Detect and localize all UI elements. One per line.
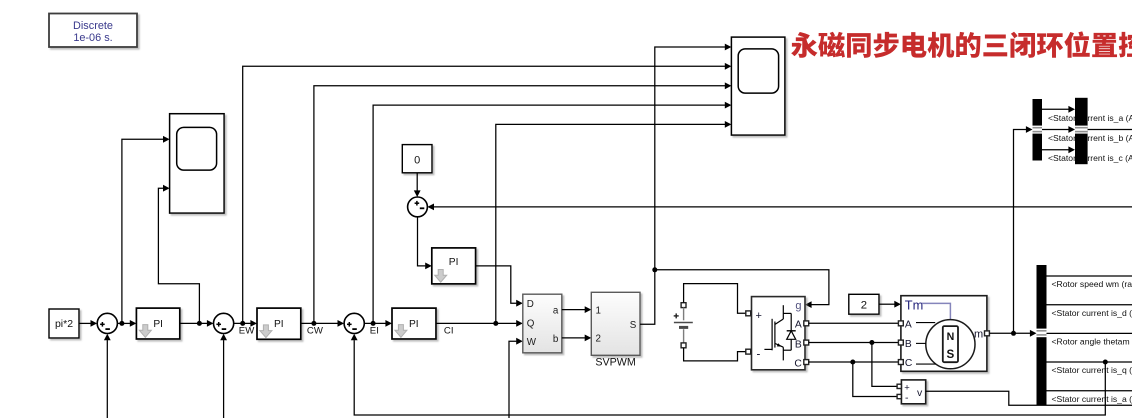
svg-text:S: S: [947, 348, 955, 361]
svg-text:D: D: [527, 299, 534, 310]
inverter port squares: [746, 311, 809, 365]
wire m branch riser to current bus selector: [1014, 126, 1033, 333]
svg-text:W: W: [527, 337, 537, 348]
svg-text:1: 1: [596, 306, 601, 317]
junction dot EW: [240, 321, 245, 326]
sum junction Sum4 (d current error): [408, 197, 428, 217]
wire is_q feedback to Sum3: [351, 334, 1106, 415]
svg-text:CW: CW: [307, 326, 324, 337]
svg-text:pi*2: pi*2: [55, 318, 73, 330]
junction dot CW: [311, 321, 316, 326]
wire PI1 to Sum2: [180, 320, 214, 327]
junction dot EI: [371, 321, 376, 326]
svg-text:-: -: [905, 392, 909, 404]
wire DQW b to SVPWM 2: [562, 335, 592, 342]
constant block 2 (load torque): [849, 294, 879, 314]
junction dot on phase B: [869, 340, 874, 345]
wire is_d feedback into Sum4: [427, 204, 1132, 211]
wire EW riser to Scope2 input 2: [243, 63, 732, 324]
svg-text:N: N: [947, 331, 955, 343]
wire speed feedback riser to Sum2: [220, 334, 227, 418]
svg-text:<Stator current is_d (A)>: <Stator current is_d (A)>: [1052, 308, 1132, 318]
svg-text:2: 2: [596, 334, 601, 345]
PI controller PI4 (d current loop): [432, 248, 476, 284]
DC voltage source battery terminal bottom: [681, 343, 686, 348]
bus selector (currents): [1033, 99, 1043, 161]
DC voltage source battery terminal top: [681, 303, 686, 308]
motor port squares: [898, 321, 989, 365]
wire bus output is_a: [1047, 390, 1132, 392]
bus selector (motor measurement bus): [1037, 265, 1047, 405]
motor port label B and stub: [905, 339, 926, 350]
subsystem dq0-to-abc transform DQW: [523, 294, 562, 353]
sum junction Sum3 (q current error): [344, 313, 364, 333]
svg-text:0: 0: [414, 155, 420, 167]
wire Sum1 to PI1: [117, 320, 136, 327]
wire v output: [926, 391, 1132, 405]
battery symbol: [674, 308, 693, 344]
wire bus selector to mux is_c: [1042, 146, 1075, 153]
svg-text:PI: PI: [449, 257, 459, 268]
wire branch to Scope1 input 2: [158, 185, 199, 324]
motor Tm internal line: [922, 303, 951, 319]
wire constant 0 to Sum4: [414, 173, 421, 197]
wire phase B inverter to motor: [809, 342, 899, 344]
PI controller PI3 (q current loop): [392, 308, 436, 339]
wire DQW a to SVPWM 1: [562, 306, 592, 313]
svg-text:C: C: [905, 358, 913, 369]
wire pi*2 to Sum1: [79, 320, 97, 327]
svg-text:EI: EI: [370, 326, 379, 337]
wire battery + to inverter +: [684, 284, 746, 314]
junction dot on S wire: [652, 267, 657, 272]
svg-text:<Stator current is_a (A)>: <Stator current is_a (A)>: [1048, 113, 1132, 123]
wire speed feedback riser to Sum1: [104, 334, 111, 418]
junction dot on is_q wire: [1103, 360, 1108, 365]
scope Scope2: [731, 37, 785, 135]
svg-text:<Rotor speed wm (rad/s)>: <Rotor speed wm (rad/s)>: [1052, 279, 1132, 289]
wire motor m to bus selector: [990, 330, 1037, 337]
scope Scope1: [170, 114, 225, 213]
junction dot CI: [493, 321, 498, 326]
svg-text:B: B: [905, 339, 912, 350]
svg-text:SVPWM: SVPWM: [595, 357, 635, 369]
PI controller PI1 (position loop): [136, 308, 179, 339]
PI controller PI2 (speed loop): [257, 308, 301, 339]
sum junction Sum2 (speed error): [214, 313, 234, 333]
svg-text:b: b: [553, 334, 559, 345]
wire battery - to inverter -: [684, 348, 746, 361]
wire bus selector to mux is_a: [1042, 106, 1075, 113]
wire bus output rotor speed wm: [1047, 275, 1132, 277]
svg-text:1e-06 s.: 1e-06 s.: [73, 32, 112, 44]
wire phase C inverter to motor: [809, 361, 899, 363]
svg-text:a: a: [553, 305, 559, 316]
wire EI riser to Scope2 input 4: [373, 102, 731, 324]
title annotation (red Chinese text): [791, 31, 1132, 57]
wire phase C branch to voltage measurement -: [853, 362, 897, 397]
wire constant 2 to motor Tm: [879, 301, 901, 308]
wire Sum4 to PI4: [418, 217, 432, 269]
wire Sum2 to PI2, signal EW: [234, 320, 257, 327]
motor port label C and stub: [905, 358, 936, 369]
svg-text:2: 2: [861, 300, 867, 312]
wire rotor angle feedback to DQW W input: [509, 338, 523, 418]
mux (currents): [1075, 98, 1088, 164]
constant block pi*2: [49, 309, 79, 338]
wire phase B branch to voltage measurement +: [872, 343, 897, 387]
svg-text:C: C: [794, 358, 802, 369]
wire bus selector to mux is_b: [1042, 126, 1075, 133]
svg-text:+: +: [756, 310, 762, 322]
svg-text:<Stator current is_b (A)>: <Stator current is_b (A)>: [1048, 133, 1132, 143]
constant block 0 (d current reference): [402, 145, 432, 173]
svg-text:<Stator current is_c (A)>: <Stator current is_c (A)>: [1048, 153, 1132, 163]
sum junction Sum1 (position error): [97, 313, 117, 333]
motor port label A and stub: [905, 320, 935, 331]
wire PI2 to Sum3, signal CW: [301, 320, 344, 327]
wire PI4 to DQW D input: [476, 266, 523, 307]
junction dot after PI1: [197, 321, 202, 326]
svg-text:-: -: [757, 349, 761, 361]
wire S branch to inverter g input: [655, 270, 829, 308]
wire CW riser to Scope2 input 3: [314, 82, 732, 323]
motor magnet with N S: [943, 326, 958, 362]
wire PI3 to DQW Q input, signal CI: [436, 320, 523, 327]
motor block PMSM: [901, 296, 987, 372]
svg-text:EW: EW: [239, 326, 255, 337]
junction dot on m wire: [1011, 331, 1016, 336]
svg-text:B: B: [795, 339, 802, 350]
svg-text:Q: Q: [527, 318, 535, 329]
wire bus output rotor angle thetam: [1047, 332, 1132, 334]
svg-text:Tm: Tm: [905, 297, 923, 312]
junction dot after Sum1: [119, 321, 124, 326]
svg-text:PI: PI: [409, 319, 419, 330]
svg-text:g: g: [795, 300, 801, 312]
svg-text:Discrete: Discrete: [73, 20, 113, 32]
Discrete sample time block: [49, 14, 137, 48]
inverter IGBT-diode icon: [764, 305, 795, 360]
wire bus output is_q: [1047, 361, 1132, 363]
svg-text:<Stator current is_q (A)>: <Stator current is_q (A)>: [1052, 365, 1132, 375]
junction dot on phase C: [850, 360, 855, 365]
voltage measurement port squares: [897, 384, 901, 398]
svg-text:v: v: [917, 387, 923, 399]
svg-text:S: S: [630, 320, 637, 331]
wire bus output is_d: [1047, 304, 1132, 306]
wire mux output: [1088, 129, 1132, 131]
voltage measurement block v: [901, 380, 925, 404]
wire phase A inverter to motor: [809, 322, 899, 324]
svg-text:m: m: [974, 328, 983, 340]
wire Sum3 to PI3, signal EI: [364, 320, 392, 327]
svg-text:PI: PI: [153, 319, 163, 330]
wire CI riser to Scope2 input 5: [496, 121, 732, 323]
motor rotor circle: [926, 320, 975, 369]
subsystem SVPWM: [591, 292, 640, 355]
svg-text:A: A: [905, 320, 912, 331]
svg-text:<Rotor angle thetam (rad)>: <Rotor angle thetam (rad)>: [1052, 337, 1132, 347]
svg-text:CI: CI: [444, 326, 454, 337]
inverter block Universal Bridge: [752, 297, 806, 370]
wire SVPWM S to Scope2 input 1: [640, 44, 731, 325]
svg-text:PI: PI: [274, 319, 284, 330]
wire branch to Scope1 input 1: [122, 136, 170, 324]
svg-text:A: A: [795, 320, 802, 331]
svg-text:<Stator current is_a (A)>: <Stator current is_a (A)>: [1052, 394, 1132, 404]
